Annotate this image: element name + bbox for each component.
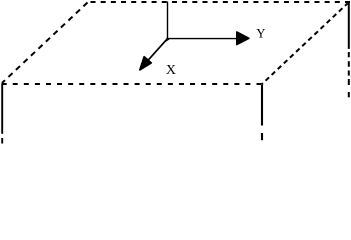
Y axis shaft — [168, 38, 239, 40]
Y axis arrowhead — [237, 32, 249, 45]
back-right vertical edge (solid part) — [348, 2, 350, 49]
back-right vertical edge dashes — [348, 52, 350, 57]
top back edge of slab (dashed) — [91, 1, 351, 3]
front edge of top face (dashed) — [2, 83, 262, 85]
front-right vertical edge (solid part) — [261, 85, 263, 126]
front-left vertical edge hidden dash — [1, 138, 3, 144]
front-right vertical edge hidden dash — [261, 133, 263, 140]
X axis arrowhead — [140, 57, 151, 70]
origin junction ink blob — [163, 37, 169, 44]
right slant edge of top face (dashed) — [262, 3, 349, 85]
front-left vertical edge (solid part) — [1, 84, 3, 134]
vertical reference line from top edge down to axes origin — [167, 2, 169, 39]
X axis shaft — [145, 39, 168, 64]
left slant edge of top face (dashed) — [2, 3, 88, 84]
svg-text:Y: Y — [256, 26, 265, 40]
svg-text:X: X — [166, 63, 176, 78]
